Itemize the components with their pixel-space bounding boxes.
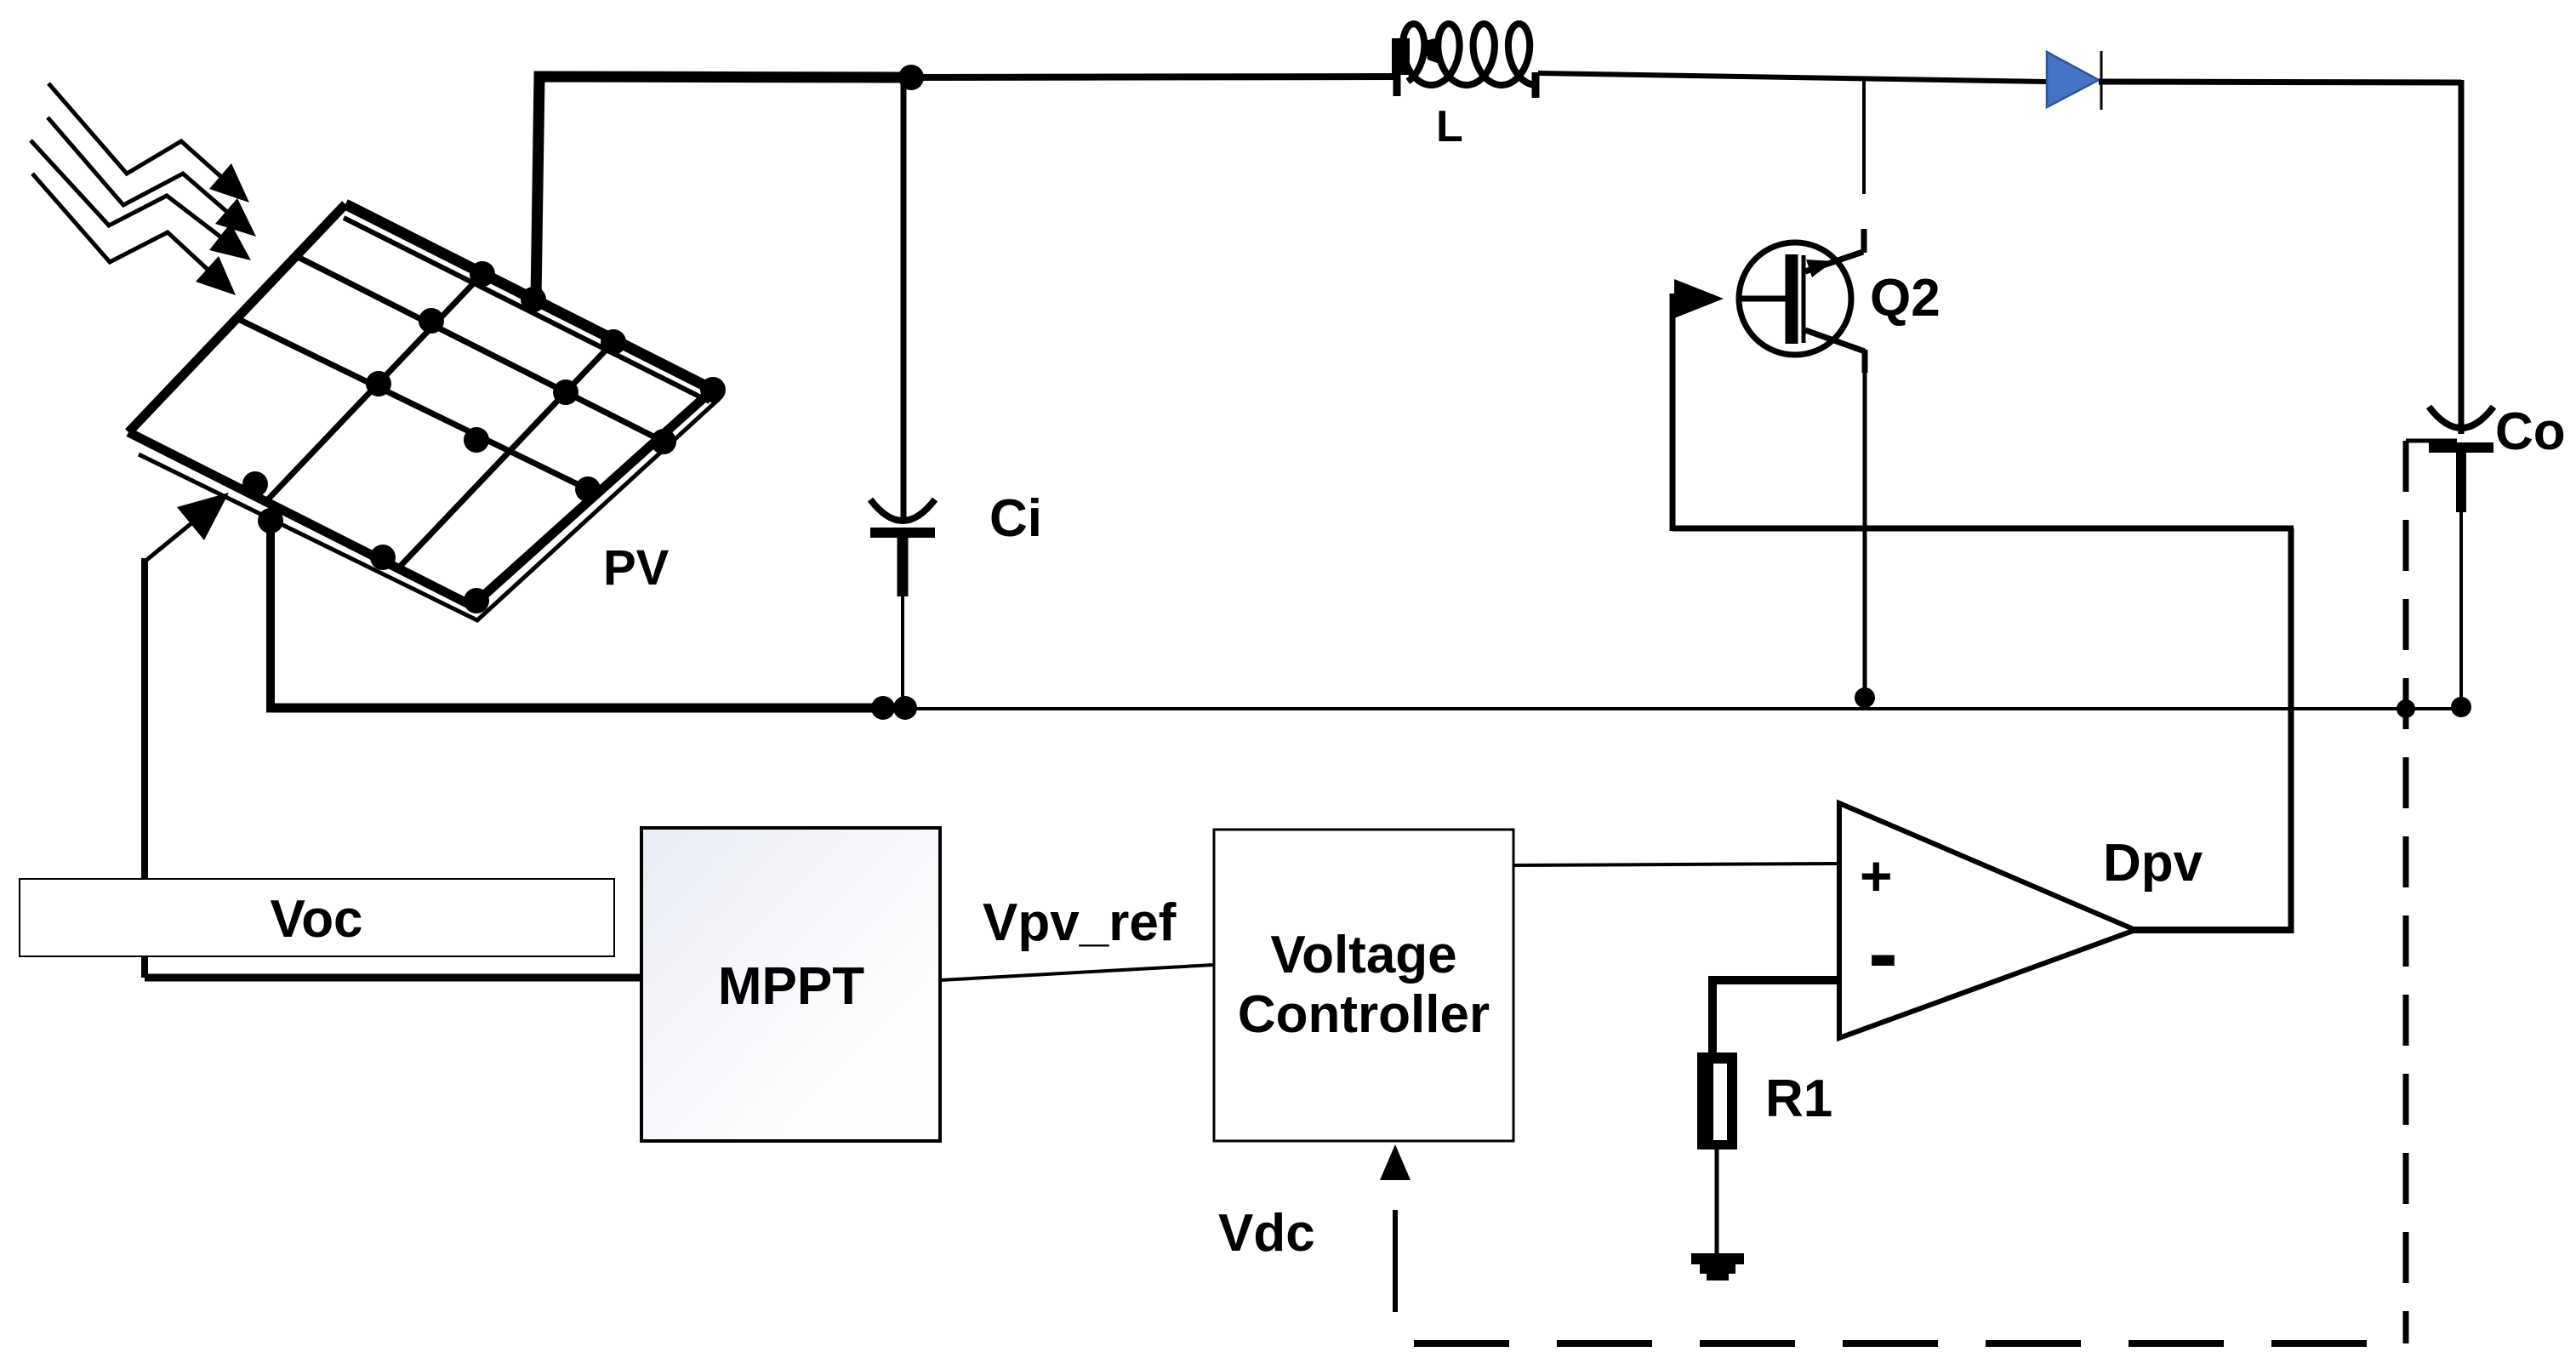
Vdc dashed feedback line	[1414, 441, 2457, 1343]
wire MPPT to Voltage Controller (Vpv_ref)	[940, 965, 1214, 980]
svg-text:-: -	[1868, 904, 1898, 1003]
svg-text:Ci: Ci	[989, 489, 1042, 548]
Vdc input arrow	[1380, 1144, 1411, 1312]
ground	[1691, 1253, 1744, 1281]
svg-text:Vdc: Vdc	[1218, 1204, 1315, 1263]
svg-text:Dpv: Dpv	[2103, 834, 2203, 893]
inductor L	[1392, 24, 1536, 98]
svg-text:MPPT: MPPT	[718, 957, 864, 1016]
resistor R1	[1697, 980, 1737, 1253]
node emitter to rail	[1855, 687, 1875, 708]
node rail/Ci double dot	[871, 696, 895, 720]
bottom rail (PV negative) thick	[266, 704, 903, 713]
wire Voltage Controller to op-amp + input	[1513, 864, 1839, 865]
solar irradiance arrows	[31, 83, 256, 295]
svg-text:Co: Co	[2495, 402, 2566, 461]
Voc box	[20, 879, 614, 956]
wire PV- down to rail	[266, 519, 275, 708]
capacitor Co	[2429, 407, 2493, 703]
svg-text:PV: PV	[603, 540, 670, 596]
node dashed line on rail	[2396, 699, 2415, 718]
transistor Q2 (IGBT)	[1674, 79, 1865, 691]
op-amp comparator Dpv	[1839, 803, 2135, 1038]
wire R1 to op-amp - input	[1708, 976, 1839, 984]
svg-text:R1: R1	[1765, 1070, 1832, 1128]
Voltage Controller block	[1214, 830, 1513, 1141]
PV panel	[128, 204, 726, 620]
wire op-amp output to Q2 gate	[1673, 294, 2294, 933]
MPPT block	[641, 828, 940, 1141]
svg-text:+: +	[1860, 844, 1893, 907]
wire node to inductor	[911, 77, 1397, 77]
svg-text:Voc: Voc	[270, 890, 362, 949]
svg-text:Vpv_ref: Vpv_ref	[983, 893, 1177, 952]
wire PV+ to top node	[536, 77, 911, 299]
bottom rail thin	[903, 707, 2462, 710]
node Co to rail	[2451, 697, 2471, 717]
svg-text:Controller: Controller	[1238, 985, 1490, 1044]
node PV/Ci/L junction	[898, 65, 924, 90]
diode D (output)	[2047, 51, 2101, 110]
capacitor Ci	[870, 77, 935, 706]
svg-text:Voltage: Voltage	[1270, 926, 1456, 984]
Voc sense wire with arrow to PV	[145, 493, 641, 978]
wire output down to Co	[2459, 80, 2465, 434]
wire diode to output corner	[2099, 82, 2461, 83]
wire inductor to diode	[1538, 73, 2047, 82]
svg-text:Q2: Q2	[1870, 269, 1941, 328]
svg-text:L: L	[1436, 102, 1463, 151]
